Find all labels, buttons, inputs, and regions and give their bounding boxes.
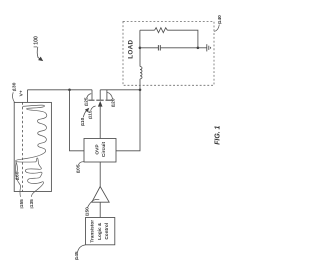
wire: C branch right [161, 47, 198, 49]
wire: load tap down-segment [139, 79, 141, 90]
svg-text:V+: V+ [19, 90, 25, 96]
buffer amplifier triangle 150 [92, 187, 109, 203]
svg-text:OVP: OVP [95, 144, 101, 155]
wire: load node up to R branch [139, 30, 141, 48]
leader for 130 [13, 92, 15, 102]
svg-text:130: 130 [12, 82, 18, 90]
supply waveform box 130 [14, 102, 51, 191]
svg-text:155: 155 [19, 199, 25, 207]
inductor L [140, 67, 142, 79]
svg-text:150: 150 [84, 207, 90, 215]
transistor 110 drain lead [91, 90, 93, 100]
junction node dot load tap [139, 89, 142, 92]
wire: R branch right [167, 30, 198, 48]
gate arrow head [98, 101, 103, 107]
node dot inside load [139, 47, 142, 50]
transistor channel bar left [88, 99, 94, 101]
wire: V+ riser [27, 90, 29, 103]
leader for 150 [87, 199, 99, 208]
wire: gate line down to OVP [99, 106, 101, 139]
svg-text:LOAD: LOAD [127, 40, 134, 59]
wire: OVP to buffer apex [99, 162, 101, 187]
svg-text:140: 140 [217, 15, 223, 23]
waveform trace B [15, 162, 20, 197]
svg-text:Control: Control [104, 223, 109, 240]
svg-text:Transistor: Transistor [90, 220, 95, 243]
wire: C branch left [140, 47, 158, 49]
wire: R branch left [140, 29, 155, 31]
dashed LOAD box 140 [123, 22, 214, 86]
waveform trace A [16, 105, 47, 197]
wire to ground [198, 47, 207, 49]
svg-text:100: 100 [33, 36, 39, 45]
wire: inductor to load node [139, 48, 141, 67]
capacitor C right plate [159, 45, 161, 50]
transistor body tap [99, 90, 101, 100]
svg-text:Logic &: Logic & [97, 222, 102, 240]
wire: buffer base to logic box [99, 202, 101, 217]
svg-text:FIG. 1: FIG. 1 [215, 125, 222, 144]
leader for 115 [91, 106, 96, 110]
leader for 125 [87, 94, 92, 99]
svg-text:105: 105 [75, 164, 81, 172]
wire: left sense line to OVP [70, 90, 85, 151]
leader for 160 [16, 162, 17, 173]
wire: right sense line to OVP [116, 90, 140, 151]
transistor channel bar middle [96, 99, 103, 101]
OVP circuit box 105 [84, 139, 116, 163]
leader for 105 [78, 162, 84, 166]
wire: top rail left (drain side) [28, 89, 93, 91]
leader arrow for 100 [37, 47, 39, 59]
dashed nominal level line 160 [21, 102, 23, 191]
junction dot at ground node [197, 47, 200, 50]
wire: top rail right (source to load node) [100, 89, 140, 91]
ground symbol [206, 44, 208, 51]
svg-text:110: 110 [80, 117, 86, 125]
svg-text:135: 135 [29, 199, 35, 207]
svg-text:125: 125 [84, 97, 90, 105]
svg-text:Circuit: Circuit [101, 142, 107, 158]
leader for 120 [107, 92, 113, 99]
capacitor C left plate [157, 45, 159, 50]
svg-text:160: 160 [15, 171, 21, 179]
svg-text:115: 115 [88, 110, 94, 118]
junction node dot left sense tap [68, 89, 71, 92]
transistor logic and control box 145 [86, 218, 115, 245]
resistor R [155, 28, 168, 33]
svg-text:145: 145 [74, 251, 80, 259]
transistor channel bar right [106, 99, 112, 101]
transistor source lead [106, 90, 108, 100]
leader for 145 [78, 245, 86, 253]
leader for 140 [214, 25, 219, 32]
svg-text:120: 120 [110, 98, 116, 106]
arrow for 110 [83, 110, 87, 117]
